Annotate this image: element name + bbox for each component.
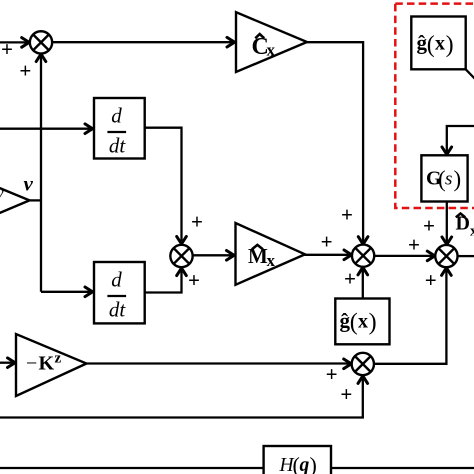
svg-text:x: x	[435, 33, 445, 55]
svg-text:+: +	[326, 362, 338, 386]
svg-text:(: (	[427, 32, 435, 58]
svg-text:+: +	[340, 382, 352, 406]
svg-text:+: +	[188, 268, 200, 292]
svg-text:x: x	[267, 41, 276, 60]
svg-text:q: q	[300, 455, 310, 474]
svg-text:+: +	[344, 267, 356, 291]
svg-text:+: +	[191, 210, 203, 234]
svg-text:s: s	[445, 169, 452, 190]
svg-text:): )	[454, 167, 462, 192]
svg-text:M: M	[248, 244, 268, 268]
svg-text:ν: ν	[24, 172, 34, 196]
svg-text:v: v	[0, 184, 4, 203]
svg-text:−: −	[26, 352, 37, 374]
svg-text:x: x	[358, 310, 368, 332]
svg-text:+: +	[341, 203, 353, 227]
svg-text:d: d	[111, 104, 122, 128]
svg-text:x: x	[470, 224, 474, 240]
svg-text:x: x	[267, 251, 276, 270]
svg-text:dt: dt	[109, 298, 127, 322]
svg-text:+: +	[423, 214, 435, 238]
svg-text:): )	[446, 32, 454, 58]
svg-text:+: +	[1, 37, 13, 61]
svg-text:): )	[369, 310, 377, 336]
svg-text:dt: dt	[109, 134, 127, 158]
svg-text:K: K	[39, 353, 55, 375]
svg-text:+: +	[19, 59, 31, 83]
svg-text:d: d	[111, 268, 122, 292]
svg-text:+: +	[321, 229, 333, 253]
svg-text:+: +	[408, 233, 420, 257]
svg-text:(: (	[350, 310, 358, 336]
svg-text:): )	[310, 453, 317, 474]
svg-text:z: z	[55, 351, 62, 367]
svg-text:+: +	[425, 268, 437, 292]
